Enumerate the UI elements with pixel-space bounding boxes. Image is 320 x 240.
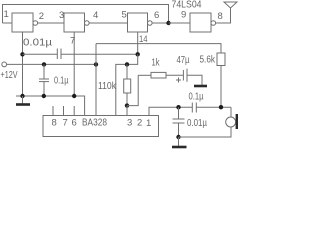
svg-text:BA328: BA328	[82, 118, 107, 129]
inverter U1C box	[128, 13, 148, 32]
wire gate3 out to junction	[152, 22, 168, 24]
capacitor 0.01µ output bottom lead	[178, 123, 180, 137]
inverter U1D bubble	[211, 21, 216, 26]
capacitor 0.01µ output top lead	[178, 107, 180, 119]
junction node cap tap	[20, 52, 24, 56]
antenna	[224, 2, 237, 8]
svg-text:7: 7	[70, 36, 75, 47]
junction node bottom	[176, 135, 180, 139]
wire gate4 out to antenna	[216, 8, 231, 23]
junction node feedback	[166, 21, 170, 25]
ground symbol left	[22, 96, 24, 104]
wire gate3 bottom pin14	[137, 32, 139, 54]
junction node V+ branch	[94, 62, 98, 66]
svg-text:5: 5	[122, 10, 127, 21]
junction node pin14	[136, 52, 140, 56]
junction node 0.1µ branch	[42, 62, 46, 66]
svg-text:3: 3	[59, 10, 64, 21]
junction node gnd1	[20, 94, 24, 98]
capacitor 0.1µ output plates	[191, 103, 193, 113]
capacitor 0.01µ output plates	[173, 118, 185, 120]
inverter U1B box	[64, 13, 85, 32]
BA328 pin stub 8	[52, 106, 54, 116]
ground bar 47µ	[194, 85, 207, 88]
wire gate2 bottom pin7	[73, 32, 75, 96]
wire gate2 out to gate3 in	[89, 22, 127, 24]
svg-text:7: 7	[63, 118, 68, 129]
wire feedback loop top	[3, 5, 169, 24]
ground symbol bottom	[178, 137, 180, 146]
wire node up to 1k	[127, 75, 138, 105]
svg-text:1: 1	[4, 9, 9, 20]
svg-text:47µ: 47µ	[177, 55, 190, 66]
resistor 1k left lead	[138, 74, 151, 76]
wire V+ down to BA328	[95, 64, 97, 115]
BA328 pin stub 6	[73, 106, 75, 116]
inverter U1A bubble	[33, 21, 38, 26]
ground row wire	[16, 96, 85, 116]
junction node gnd2	[42, 94, 46, 98]
inverter U1A box	[12, 13, 33, 32]
wire cap to pin14 node	[61, 53, 138, 55]
capacitor 47µ polarity plus	[176, 79, 181, 81]
svg-text:9: 9	[181, 10, 186, 21]
capacitor 0.1µ decoupling bottom lead	[43, 82, 45, 96]
wire pin14 jog to rail	[127, 54, 138, 64]
resistor 5.6k	[217, 53, 225, 66]
capacitor 0.01µ left lead	[23, 53, 58, 55]
wire pin3 jog	[116, 64, 127, 115]
inverter U1C bubble	[148, 21, 153, 26]
wire 47µ to ground	[187, 75, 202, 85]
svg-text:0.1µ: 0.1µ	[54, 76, 69, 87]
junction node pin2	[125, 103, 129, 107]
resistor 110k top lead	[126, 64, 128, 79]
wire V+ top line	[96, 44, 221, 53]
wire gate1 bottom to ground row	[22, 32, 24, 96]
wire speaker top lead	[230, 107, 232, 117]
svg-text:2: 2	[137, 118, 142, 129]
svg-text:1k: 1k	[152, 58, 161, 69]
speaker	[226, 117, 236, 127]
svg-text:2: 2	[39, 11, 44, 22]
wire junction to gate4 in	[169, 22, 191, 24]
svg-text:1: 1	[146, 118, 151, 129]
IC BA328 box	[43, 116, 159, 137]
wire input gate1	[3, 22, 13, 24]
svg-text:8: 8	[218, 11, 223, 22]
svg-text:8: 8	[52, 118, 57, 129]
junction node gnd3	[72, 94, 76, 98]
svg-text:6: 6	[154, 10, 159, 21]
+12V terminal	[2, 62, 7, 67]
wire cap to speaker node	[196, 106, 231, 108]
svg-text:+12V: +12V	[1, 70, 18, 81]
svg-text:0.1µ: 0.1µ	[189, 92, 204, 103]
junction node 5.6k bottom	[219, 105, 223, 109]
wire +12V rail	[7, 63, 96, 65]
resistor 1k	[151, 72, 166, 78]
resistor 110k bottom lead	[126, 93, 128, 106]
capacitor 0.1µ decoupling plates	[39, 78, 49, 80]
junction node rail end	[125, 62, 129, 66]
wire bottom row to speaker	[179, 127, 232, 137]
resistor 1k right lead	[166, 74, 183, 76]
svg-text:110k: 110k	[98, 81, 117, 92]
capacitor 47µ plates	[182, 70, 184, 81]
svg-text:0.01µ: 0.01µ	[23, 38, 52, 49]
wire node to BA328 pin2	[126, 106, 128, 116]
wire V+ riser	[95, 44, 97, 65]
wire 5.6k bottom lead	[220, 66, 222, 108]
wire gate1 out to gate2 in	[38, 22, 64, 24]
capacitor 0.01µ plates	[56, 49, 58, 60]
svg-text:4: 4	[93, 10, 98, 21]
inverter U1B bubble	[85, 21, 90, 26]
wire BA328 pin1 out	[149, 107, 192, 115]
inverter U1D box	[190, 13, 211, 32]
svg-text:6: 6	[72, 118, 77, 129]
svg-text:5.6k: 5.6k	[200, 55, 216, 66]
svg-text:74LS04: 74LS04	[172, 0, 202, 11]
BA328 pin stub 7	[63, 106, 65, 116]
junction node out	[176, 105, 180, 109]
svg-text:3: 3	[127, 118, 132, 129]
svg-text:0.01µ: 0.01µ	[187, 118, 207, 129]
resistor 110k	[124, 79, 131, 93]
capacitor 0.1µ decoupling top lead	[43, 64, 45, 79]
